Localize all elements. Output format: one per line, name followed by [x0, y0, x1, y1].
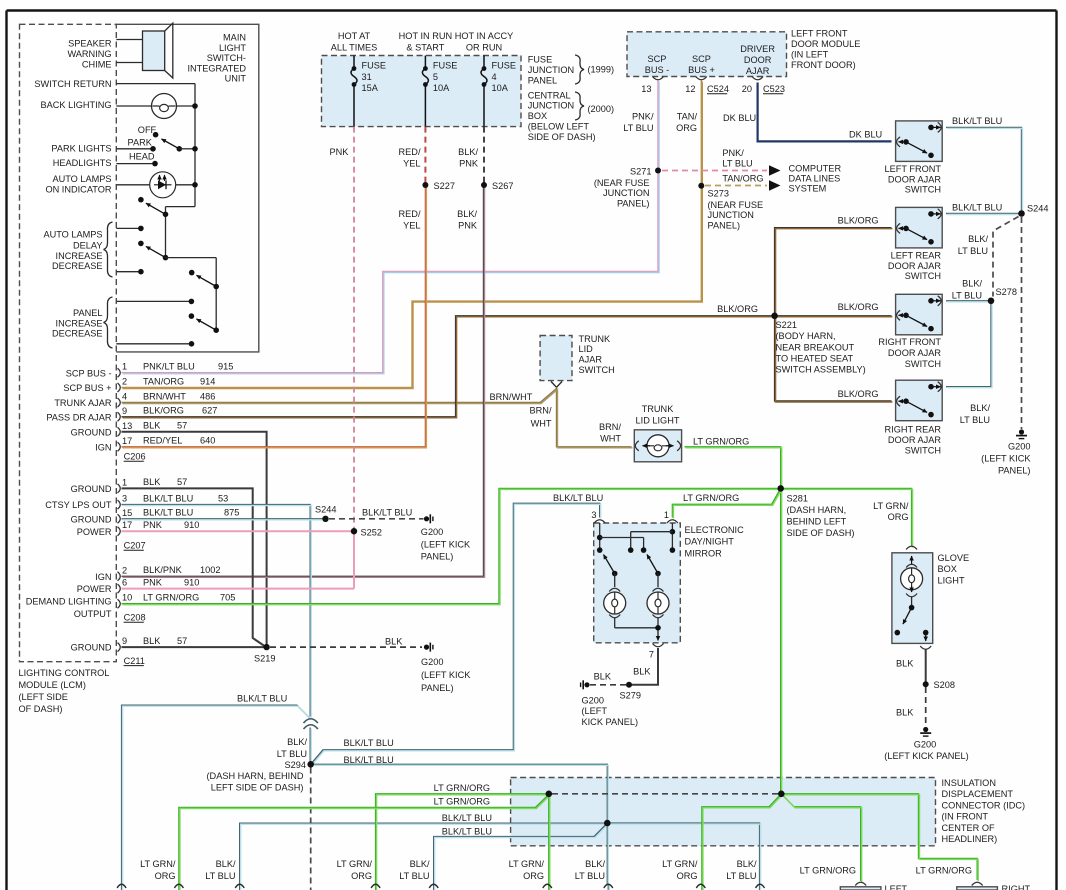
ground G200 at S279: [584, 682, 589, 687]
svg-text:BLK: BLK: [896, 708, 914, 718]
wire PNK/LT BLU dashed S271 to computer data lines: [662, 170, 767, 172]
wire PNK dashed fuse 31 to S252: [353, 127, 355, 529]
ground G200 at S219: [424, 645, 429, 650]
svg-text:G200: G200: [914, 740, 936, 750]
connector C208 pins: [118, 572, 121, 581]
svg-text:S227: S227: [434, 181, 455, 191]
svg-text:BLK/: BLK/: [962, 279, 982, 289]
mirror pin 1: [667, 520, 678, 523]
svg-text:AJAR: AJAR: [746, 66, 770, 76]
svg-text:BEHIND LEFT: BEHIND LEFT: [787, 517, 847, 527]
svg-text:20: 20: [742, 84, 752, 94]
wire RED/YEL 640 IGN : S227 to C206-17: [122, 186, 426, 447]
svg-text:FRONT DOOR): FRONT DOOR): [791, 60, 856, 70]
left rear door ajar switch box: [896, 207, 943, 248]
svg-text:PANEL): PANEL): [421, 552, 454, 562]
wire BLK dashed S219 to G200: [270, 646, 422, 648]
speaker warning chime: [116, 39, 142, 41]
svg-text:S281: S281: [787, 494, 808, 504]
wire BLK/LT BLU 53 CTSY LPS OUT : C207-3 down to break and S294: [122, 505, 311, 717]
wire BLK/LT BLU S294 to mirror pin 3: [311, 503, 600, 764]
svg-text:DRIVER: DRIVER: [740, 44, 775, 54]
svg-text:& START: & START: [406, 42, 444, 52]
svg-text:BLK/: BLK/: [458, 147, 478, 157]
svg-text:ALL TIMES: ALL TIMES: [331, 42, 377, 52]
wire LT GRN/ORG IDC splice drop to headliner: [548, 794, 550, 890]
svg-text:SWITCH: SWITCH: [905, 271, 941, 281]
svg-text:WHT: WHT: [600, 434, 621, 444]
svg-text:31: 31: [362, 72, 372, 82]
svg-text:LT GRN/: LT GRN/: [337, 859, 373, 869]
svg-text:HOT IN ACCY: HOT IN ACCY: [455, 31, 514, 41]
svg-text:BLK/ORG: BLK/ORG: [838, 389, 879, 399]
svg-text:57: 57: [177, 636, 187, 646]
wire BLK/LT BLU IDC splice diagonal branch down-left: [434, 823, 608, 890]
svg-text:ON INDICATOR: ON INDICATOR: [45, 185, 111, 195]
svg-text:LT GRN/ORG: LT GRN/ORG: [916, 866, 972, 876]
svg-text:(LEFT KICK: (LEFT KICK: [421, 670, 471, 680]
svg-text:SYSTEM: SYSTEM: [789, 184, 827, 194]
node S267: [481, 182, 487, 188]
svg-text:LIGHTING CONTROL: LIGHTING CONTROL: [19, 668, 110, 678]
svg-text:LID LIGHT: LID LIGHT: [636, 415, 680, 425]
svg-text:LIGHT: LIGHT: [219, 43, 246, 53]
svg-text:PANEL: PANEL: [528, 75, 557, 85]
svg-text:57: 57: [177, 421, 187, 431]
svg-text:DAY/NIGHT: DAY/NIGHT: [685, 537, 735, 547]
svg-text:PANEL): PANEL): [708, 221, 741, 231]
svg-text:BLK/: BLK/: [457, 209, 477, 219]
svg-text:627: 627: [202, 406, 217, 416]
right rear door ajar switch box: [896, 380, 943, 421]
svg-text:OUTPUT: OUTPUT: [74, 609, 112, 619]
svg-text:FUSE: FUSE: [528, 54, 553, 64]
svg-text:ORG: ORG: [351, 871, 372, 881]
bottom edge connector arcs: [117, 884, 126, 888]
svg-text:S219: S219: [254, 654, 275, 664]
svg-text:5: 5: [433, 72, 438, 82]
svg-text:LT BLU: LT BLU: [726, 871, 756, 881]
wire TAN/ORG 914 SCP BUS + : C206-2 to module pin12: [122, 81, 702, 388]
node S273: [698, 183, 704, 189]
electronic day/night mirror box: [594, 523, 681, 643]
svg-text:BLK/: BLK/: [585, 859, 605, 869]
svg-text:BLK/LT BLU: BLK/LT BLU: [344, 738, 394, 748]
svg-text:BLK/LT BLU: BLK/LT BLU: [442, 813, 492, 823]
svg-text:BLK/LT BLU: BLK/LT BLU: [143, 508, 193, 518]
svg-text:4: 4: [122, 392, 127, 402]
svg-text:DOOR: DOOR: [744, 55, 772, 65]
svg-text:LT GRN/: LT GRN/: [873, 501, 909, 511]
svg-text:BLK/: BLK/: [970, 403, 990, 413]
svg-text:BLK: BLK: [143, 477, 161, 487]
svg-text:LT BLU: LT BLU: [623, 123, 653, 133]
wire BLK/PNK 1002 IGN : S267 to C208-2: [122, 186, 484, 576]
svg-text:G200: G200: [1008, 442, 1030, 452]
svg-text:BRN/: BRN/: [530, 406, 552, 416]
svg-text:C523: C523: [763, 84, 785, 94]
right front door ajar switch box: [896, 294, 943, 335]
IDC internal dashed bus: [552, 793, 778, 795]
svg-text:PNK: PNK: [143, 520, 163, 530]
svg-text:DOOR AJAR: DOOR AJAR: [888, 348, 941, 358]
svg-text:ELECTRONIC: ELECTRONIC: [685, 525, 745, 535]
svg-text:13: 13: [122, 421, 132, 431]
svg-text:1002: 1002: [200, 565, 220, 575]
svg-text:DEMAND LIGHTING: DEMAND LIGHTING: [26, 597, 112, 607]
svg-text:MODULE (LCM): MODULE (LCM): [19, 680, 86, 690]
wire BLK 57 C206-13 to S219: [122, 432, 267, 645]
panel dimmer switch: [166, 257, 217, 259]
wire LT GRN/ORG S281 to mirror pin 1: [672, 488, 780, 517]
svg-text:S244: S244: [315, 504, 336, 514]
svg-text:DOOR MODULE: DOOR MODULE: [791, 39, 860, 49]
svg-text:FUSE: FUSE: [362, 61, 387, 71]
svg-text:(LEFT KICK PANEL): (LEFT KICK PANEL): [884, 751, 968, 761]
svg-text:BLK/PNK: BLK/PNK: [143, 565, 183, 575]
svg-text:LEFT FRONT: LEFT FRONT: [885, 164, 942, 174]
svg-text:SWITCH ASSEMBLY): SWITCH ASSEMBLY): [776, 365, 866, 375]
svg-text:MAIN: MAIN: [223, 33, 246, 43]
wire TAN/ORG dashed S273 to computer data lines: [705, 185, 767, 187]
svg-text:AUTO LAMPS: AUTO LAMPS: [52, 174, 111, 184]
svg-text:BLK: BLK: [143, 421, 161, 431]
module pin 13: [653, 77, 664, 80]
svg-text:910: 910: [184, 577, 199, 587]
svg-text:CENTRAL: CENTRAL: [528, 90, 571, 100]
svg-text:LT BLU: LT BLU: [277, 749, 307, 759]
wire PNK 910 POWER : C207-17 to S252 and C208-6: [122, 530, 355, 532]
back lighting lamp: [116, 105, 152, 107]
brace panel group: [104, 297, 113, 348]
svg-text:RIGHT REAR: RIGHT REAR: [885, 424, 942, 434]
svg-text:JUNCTION: JUNCTION: [528, 65, 574, 75]
svg-text:ORG: ORG: [677, 871, 698, 881]
node S279: [626, 682, 632, 688]
svg-text:15: 15: [122, 508, 132, 518]
svg-text:RED/: RED/: [399, 147, 421, 157]
svg-text:PARK: PARK: [128, 138, 153, 148]
svg-text:YEL: YEL: [403, 159, 420, 169]
wire LT GRN/ORG S281 down to IDC splice: [780, 488, 782, 791]
svg-text:TRUNK: TRUNK: [642, 404, 675, 414]
node S252: [351, 528, 357, 534]
svg-text:SWITCH: SWITCH: [905, 446, 941, 456]
svg-text:GROUND: GROUND: [71, 643, 112, 653]
node S271: [655, 168, 661, 174]
svg-text:BLK/ORG: BLK/ORG: [838, 302, 879, 312]
svg-text:TAN/ORG: TAN/ORG: [722, 174, 763, 184]
svg-text:12: 12: [685, 84, 695, 94]
svg-text:(LEFT KICK: (LEFT KICK: [981, 454, 1031, 464]
node S208: [923, 681, 929, 687]
svg-text:FUSE: FUSE: [492, 61, 517, 71]
insulation displacement connector IDC box: [511, 778, 936, 846]
wire BLK/LT BLU IDC splice right branch down: [610, 823, 760, 890]
svg-text:LIGHT: LIGHT: [938, 575, 965, 585]
svg-text:3: 3: [122, 494, 127, 504]
node S221: [771, 313, 778, 320]
svg-text:PANEL: PANEL: [73, 308, 102, 318]
wire RED/YEL dashed fuse 5 to S227: [424, 127, 426, 183]
right map lamp connector at bottom: [957, 887, 998, 890]
IDC splice node green 1: [546, 791, 553, 798]
svg-text:BUS +: BUS +: [688, 65, 715, 75]
IDC splice node green 2: [778, 791, 785, 798]
wire BLK/LT BLU 875 C207-15 to S244: [122, 518, 324, 520]
svg-text:LT GRN/: LT GRN/: [140, 859, 176, 869]
wire LT GRN/ORG 705 DEMAND LIGHTING OUTPUT : C208-10 to S281 and glove box: [122, 488, 912, 603]
wire BLK/LT BLU dashed S244 to G200 left kick panel: [1021, 217, 1023, 429]
computer data lines arrows: [769, 165, 781, 175]
svg-text:AJAR: AJAR: [579, 355, 603, 365]
svg-text:BLK/LT BLU: BLK/LT BLU: [237, 693, 287, 703]
svg-text:TAN/ORG: TAN/ORG: [143, 376, 184, 386]
ground G200 at S244 left: [424, 516, 429, 521]
svg-text:LT BLU: LT BLU: [722, 159, 752, 169]
svg-text:TO HEATED SEAT: TO HEATED SEAT: [776, 354, 854, 364]
wire BLK/ORG S221 to left rear door ajar switch: [775, 228, 892, 316]
svg-text:PANEL): PANEL): [617, 199, 650, 209]
svg-text:SWITCH-: SWITCH-: [207, 53, 246, 63]
wire BLK/LT BLU left front switch to S244: [946, 127, 1022, 211]
svg-text:LEFT REAR: LEFT REAR: [891, 251, 942, 261]
svg-text:S244: S244: [1027, 204, 1048, 214]
svg-text:(LEFT: (LEFT: [582, 706, 608, 716]
svg-text:(1999): (1999): [588, 65, 615, 75]
svg-text:S208: S208: [934, 680, 955, 690]
svg-text:BLK: BLK: [896, 659, 914, 669]
svg-text:4: 4: [492, 72, 497, 82]
svg-text:BLK: BLK: [143, 636, 161, 646]
svg-text:TRUNK AJAR: TRUNK AJAR: [54, 398, 112, 408]
svg-text:2: 2: [122, 565, 127, 575]
svg-text:DK BLU: DK BLU: [849, 129, 882, 139]
svg-text:UNIT: UNIT: [225, 74, 247, 84]
svg-text:HEADLIGHTS: HEADLIGHTS: [53, 158, 112, 168]
svg-text:LT BLU: LT BLU: [399, 871, 429, 881]
svg-text:10A: 10A: [433, 83, 450, 93]
svg-text:S267: S267: [492, 181, 513, 191]
wire BLK/PNK dashed fuse 4 to S267: [483, 127, 485, 183]
svg-text:CENTER OF: CENTER OF: [942, 823, 995, 833]
fuse junction panel box: [322, 56, 522, 127]
svg-text:JUNCTION: JUNCTION: [708, 210, 754, 220]
svg-text:C211: C211: [124, 656, 145, 666]
wire BLK 57 C207-1 to S219: [122, 488, 265, 646]
brace auto lamps group: [104, 222, 113, 277]
svg-text:GROUND: GROUND: [71, 514, 112, 524]
svg-text:OF DASH): OF DASH): [19, 704, 63, 714]
svg-text:GROUND: GROUND: [71, 427, 112, 437]
wire BLK glove box light to S208 and G200: [925, 649, 927, 682]
svg-text:SIDE OF DASH): SIDE OF DASH): [528, 132, 596, 142]
svg-text:DOOR AJAR: DOOR AJAR: [888, 174, 941, 184]
svg-text:CONNECTOR (IDC): CONNECTOR (IDC): [942, 800, 1026, 810]
svg-text:ORG: ORG: [888, 512, 909, 522]
svg-text:LT GRN/ORG: LT GRN/ORG: [693, 436, 749, 446]
svg-text:COMPUTER: COMPUTER: [789, 163, 842, 173]
svg-text:G200: G200: [421, 527, 443, 537]
wire LT GRN/ORG IDC splice 2 left branch: [702, 794, 781, 890]
wire BLK dashed S279 to G200: [590, 684, 626, 686]
svg-text:2: 2: [122, 377, 127, 387]
svg-text:SWITCH: SWITCH: [579, 365, 615, 375]
node S281: [777, 485, 784, 492]
svg-text:LT GRN/ORG: LT GRN/ORG: [800, 866, 856, 876]
svg-text:PNK: PNK: [330, 147, 350, 157]
module pin 20 / C523: [752, 77, 763, 80]
svg-text:DOOR AJAR: DOOR AJAR: [888, 261, 941, 271]
svg-text:MIRROR: MIRROR: [685, 548, 723, 558]
svg-text:BLK: BLK: [633, 667, 651, 677]
svg-text:LT GRN/ORG: LT GRN/ORG: [434, 783, 490, 793]
svg-text:HOT AT: HOT AT: [338, 31, 371, 41]
svg-text:S271: S271: [630, 167, 651, 177]
left front door ajar switch box: [896, 121, 943, 161]
svg-text:C524: C524: [707, 84, 729, 94]
node S244 right: [1018, 210, 1025, 217]
wire BLK/LT BLU right front switch to S278: [946, 300, 989, 302]
svg-text:HOT IN RUN: HOT IN RUN: [399, 31, 452, 41]
svg-text:YEL: YEL: [403, 221, 420, 231]
svg-text:TAN/: TAN/: [677, 112, 698, 122]
svg-text:(DASH HARN,: (DASH HARN,: [787, 505, 847, 515]
wire BLK/LT BLU dashed S244 to S278: [993, 217, 1019, 297]
svg-text:6: 6: [122, 578, 127, 588]
svg-text:BACK LIGHTING: BACK LIGHTING: [41, 100, 112, 110]
svg-text:17: 17: [122, 520, 132, 530]
svg-text:9: 9: [122, 406, 127, 416]
mirror internal wiring: [599, 523, 601, 550]
svg-text:PNK/: PNK/: [632, 112, 654, 122]
svg-text:PASS DR AJAR: PASS DR AJAR: [46, 412, 112, 422]
svg-text:LT GRN/ORG: LT GRN/ORG: [683, 493, 739, 503]
node S294: [307, 761, 314, 768]
svg-text:C208: C208: [124, 613, 146, 623]
trunk lid ajar switch pin: [551, 382, 562, 388]
svg-text:(2000): (2000): [588, 104, 615, 114]
svg-text:BLK/LT BLU: BLK/LT BLU: [344, 755, 394, 765]
svg-text:7: 7: [649, 650, 654, 660]
svg-text:PNK: PNK: [143, 577, 163, 587]
svg-text:SCP: SCP: [692, 54, 711, 64]
trunk lid ajar switch box: [540, 336, 572, 381]
connector C206 pins: [118, 368, 121, 377]
wire BLK/LT BLU S294 lower branch to IDC splice: [313, 764, 607, 821]
left map lamp connector at bottom: [840, 887, 881, 890]
svg-text:BLK/LT BLU: BLK/LT BLU: [442, 826, 492, 836]
svg-text:DELAY: DELAY: [73, 240, 102, 250]
svg-text:GROUND: GROUND: [71, 484, 112, 494]
svg-text:IGN: IGN: [95, 572, 111, 582]
switch return line: [116, 83, 195, 85]
svg-text:PANEL): PANEL): [421, 683, 454, 693]
svg-text:SCP BUS -: SCP BUS -: [66, 368, 112, 378]
svg-text:BLK/LT BLU: BLK/LT BLU: [952, 116, 1002, 126]
svg-text:POWER: POWER: [77, 584, 112, 594]
svg-text:BLK/: BLK/: [968, 234, 988, 244]
svg-text:BOX: BOX: [528, 111, 547, 121]
svg-text:BRN/WHT: BRN/WHT: [490, 392, 533, 402]
node S219: [263, 644, 269, 650]
svg-text:PNK: PNK: [458, 221, 478, 231]
node S278: [988, 298, 995, 305]
wire BLK/LT BLU dashed S244 to G200: [329, 518, 424, 520]
svg-text:DISPLACEMENT: DISPLACEMENT: [942, 789, 1014, 799]
main light switch unit box: [116, 24, 258, 352]
svg-text:LT BLU: LT BLU: [952, 291, 982, 301]
svg-text:RIGHT: RIGHT: [1002, 884, 1031, 890]
svg-text:DOOR AJAR: DOOR AJAR: [888, 435, 941, 445]
wire break symbol above S294: [304, 719, 318, 723]
svg-text:WHT: WHT: [531, 419, 552, 429]
svg-text:(DASH HARN, BEHIND: (DASH HARN, BEHIND: [207, 771, 304, 781]
svg-text:HEADLINER): HEADLINER): [942, 834, 998, 844]
svg-text:SPEAKER: SPEAKER: [68, 39, 112, 49]
svg-text:(LEFT KICK: (LEFT KICK: [421, 539, 471, 549]
svg-text:BLK/LT BLU: BLK/LT BLU: [362, 507, 412, 517]
svg-text:S279: S279: [620, 691, 641, 701]
wire BLK/LT BLU far left column: [122, 705, 311, 890]
svg-text:LT BLU: LT BLU: [575, 871, 605, 881]
svg-text:705: 705: [220, 593, 235, 603]
wire LT GRN/ORG IDC splice 2 to right map light connector: [781, 794, 977, 880]
svg-text:S273: S273: [708, 188, 729, 198]
svg-text:910: 910: [184, 520, 199, 530]
wire DK BLU module pin20 to left front door ajar switch: [758, 83, 892, 142]
wire LT GRN/ORG column to IDC green splice: [376, 794, 546, 890]
svg-text:BRN/: BRN/: [599, 422, 621, 432]
wire BRN/WHT 486 TRUNK AJAR : C206-4 to trunk lid ajar switch and trunk lid light: [122, 389, 632, 447]
svg-text:BOX: BOX: [938, 564, 957, 574]
svg-text:BLK: BLK: [385, 636, 403, 646]
svg-text:LT GRN/: LT GRN/: [662, 859, 698, 869]
left rear door switch internals: [897, 223, 901, 233]
svg-text:PNK/: PNK/: [722, 148, 744, 158]
svg-text:DECREASE: DECREASE: [52, 261, 103, 271]
wire BLK/LT BLU S278 to right rear switch: [946, 304, 991, 387]
svg-text:C207: C207: [124, 541, 146, 551]
svg-text:3: 3: [591, 510, 596, 520]
svg-text:FUSE: FUSE: [433, 61, 458, 71]
svg-text:OR RUN: OR RUN: [466, 42, 502, 52]
svg-text:BLK: BLK: [594, 671, 612, 681]
svg-text:LID: LID: [579, 344, 594, 354]
svg-text:10: 10: [122, 593, 132, 603]
svg-text:BLK/: BLK/: [737, 859, 757, 869]
svg-text:BLK/ORG: BLK/ORG: [717, 304, 758, 314]
svg-text:LT GRN/ORG: LT GRN/ORG: [143, 593, 199, 603]
svg-text:S221: S221: [776, 320, 797, 330]
wire BLK 57 C211-9 to S219: [122, 646, 265, 648]
ground G200 below S208: [923, 727, 928, 732]
svg-text:CHIME: CHIME: [82, 60, 112, 70]
svg-text:486: 486: [200, 391, 215, 401]
svg-text:BLK/ORG: BLK/ORG: [838, 216, 879, 226]
svg-text:1: 1: [664, 510, 669, 520]
svg-text:S294: S294: [285, 760, 306, 770]
svg-text:AUTO LAMPS: AUTO LAMPS: [43, 230, 102, 240]
svg-text:(NEAR FUSE: (NEAR FUSE: [594, 178, 650, 188]
svg-text:13: 13: [641, 84, 651, 94]
svg-text:53: 53: [218, 493, 228, 503]
page border frame: [7, 9, 1057, 11]
svg-text:15A: 15A: [362, 83, 379, 93]
svg-text:LT GRN/ORG: LT GRN/ORG: [434, 797, 490, 807]
svg-text:BLK/LT BLU: BLK/LT BLU: [143, 493, 193, 503]
svg-text:SCP: SCP: [648, 54, 667, 64]
